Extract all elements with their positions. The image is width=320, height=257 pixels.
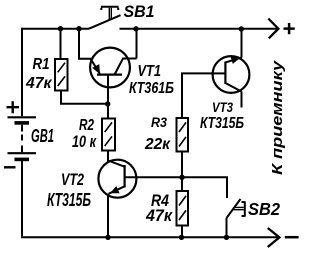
node A junction dot	[105, 101, 110, 106]
wire SB2 bottom contact	[226, 218, 228, 237]
label plus	[284, 23, 295, 34]
wire top rail left segment	[22, 28, 89, 30]
svg-text:SB2: SB2	[248, 199, 280, 219]
label VT3	[212, 99, 233, 115]
label battery minus	[4, 166, 16, 168]
battery GB1	[8, 117, 37, 159]
label R4	[151, 191, 169, 210]
label R2 value 10k	[72, 133, 97, 151]
label VT1 type KT361B	[129, 80, 174, 97]
wire VT1 emitter lead	[79, 29, 92, 59]
label R2	[79, 117, 94, 134]
wire node A to R2	[107, 104, 109, 119]
label VT1	[138, 63, 162, 80]
svg-text:КТ315Б: КТ315Б	[47, 190, 91, 210]
node junction dot R3 bottom	[179, 175, 184, 180]
wire left rail top	[21, 28, 23, 117]
label battery plus	[7, 101, 20, 113]
svg-text:22к: 22к	[144, 136, 171, 153]
wire R4 bottom lead	[181, 226, 183, 238]
svg-text:VT1: VT1	[138, 63, 162, 80]
node junction dot SB2 bottom	[224, 235, 229, 240]
node junction dot R1 top	[58, 26, 63, 31]
label R3	[151, 115, 167, 130]
svg-text:10 к: 10 к	[72, 133, 97, 151]
node junction dot SB1 right	[133, 26, 138, 31]
transistor VT3	[213, 56, 250, 93]
switch SB1 push actuator	[101, 7, 119, 20]
arrow plus output	[268, 19, 278, 39]
resistor R3	[177, 118, 189, 152]
svg-text:R2: R2	[79, 117, 94, 134]
label SB2	[248, 199, 280, 219]
wire R1 bottom to node A	[61, 91, 106, 104]
arrow minus output	[268, 228, 280, 247]
transistor VT1	[90, 48, 136, 104]
svg-text:КТ315Б: КТ315Б	[200, 115, 244, 132]
resistor R2	[102, 119, 115, 151]
node junction dot VT1 emitter top	[76, 26, 81, 31]
svg-text:VT2: VT2	[61, 170, 85, 189]
node junction dot VT3 emitter top	[239, 26, 244, 31]
wire R1 top lead	[60, 29, 62, 59]
switch SB2 push actuator	[233, 201, 245, 216]
svg-text:R1: R1	[33, 56, 50, 73]
svg-text:GB1: GB1	[31, 125, 54, 146]
svg-text:VT3: VT3	[212, 99, 233, 115]
label VT2	[61, 170, 85, 189]
wire R4 top lead	[181, 177, 183, 191]
label R1	[33, 56, 50, 73]
label R1 value 47k	[25, 75, 52, 92]
transistor VT2	[98, 160, 136, 198]
svg-text:47к: 47к	[25, 75, 52, 92]
wire bottom rail	[21, 236, 279, 238]
switch SB2 movable arm	[227, 199, 241, 218]
label minus	[285, 236, 299, 239]
label VT2 type KT315B	[47, 190, 91, 210]
label R4 value 47k	[145, 206, 173, 225]
svg-text:47к: 47к	[145, 206, 173, 225]
label GB1	[31, 125, 54, 146]
label K priyomniku (to receiver)	[269, 60, 286, 175]
label SB1	[124, 3, 155, 21]
wire VT1 collector riser	[136, 29, 138, 59]
svg-text:КТ361Б: КТ361Б	[129, 80, 174, 97]
switch SB1 movable arm	[89, 15, 121, 29]
svg-text:SB1: SB1	[124, 3, 155, 21]
wire VT2 base to SB2 top	[125, 177, 227, 198]
node junction dot VT2 emitter bottom	[105, 235, 110, 240]
label R3 value 22k	[144, 136, 171, 153]
resistor R1	[55, 59, 68, 91]
wire VT2 emitter to bottom rail	[107, 194, 109, 238]
svg-text:R3: R3	[151, 115, 167, 130]
wire top rail right segment	[120, 28, 279, 30]
wire R2 bottom to VT2 collector	[107, 151, 109, 162]
wire VT3 collector lead down	[241, 92, 243, 108]
wire R3 bottom	[181, 152, 183, 178]
label VT3 type KT315B	[200, 115, 244, 132]
svg-text:К приемнику: К приемнику	[269, 60, 286, 175]
wire VT3 emitter riser	[241, 29, 243, 58]
wire left rail bottom	[21, 161, 23, 236]
wire R3 top to VT3 base	[182, 73, 214, 118]
resistor R4	[177, 191, 189, 226]
node junction dot R4 bottom	[179, 235, 184, 240]
